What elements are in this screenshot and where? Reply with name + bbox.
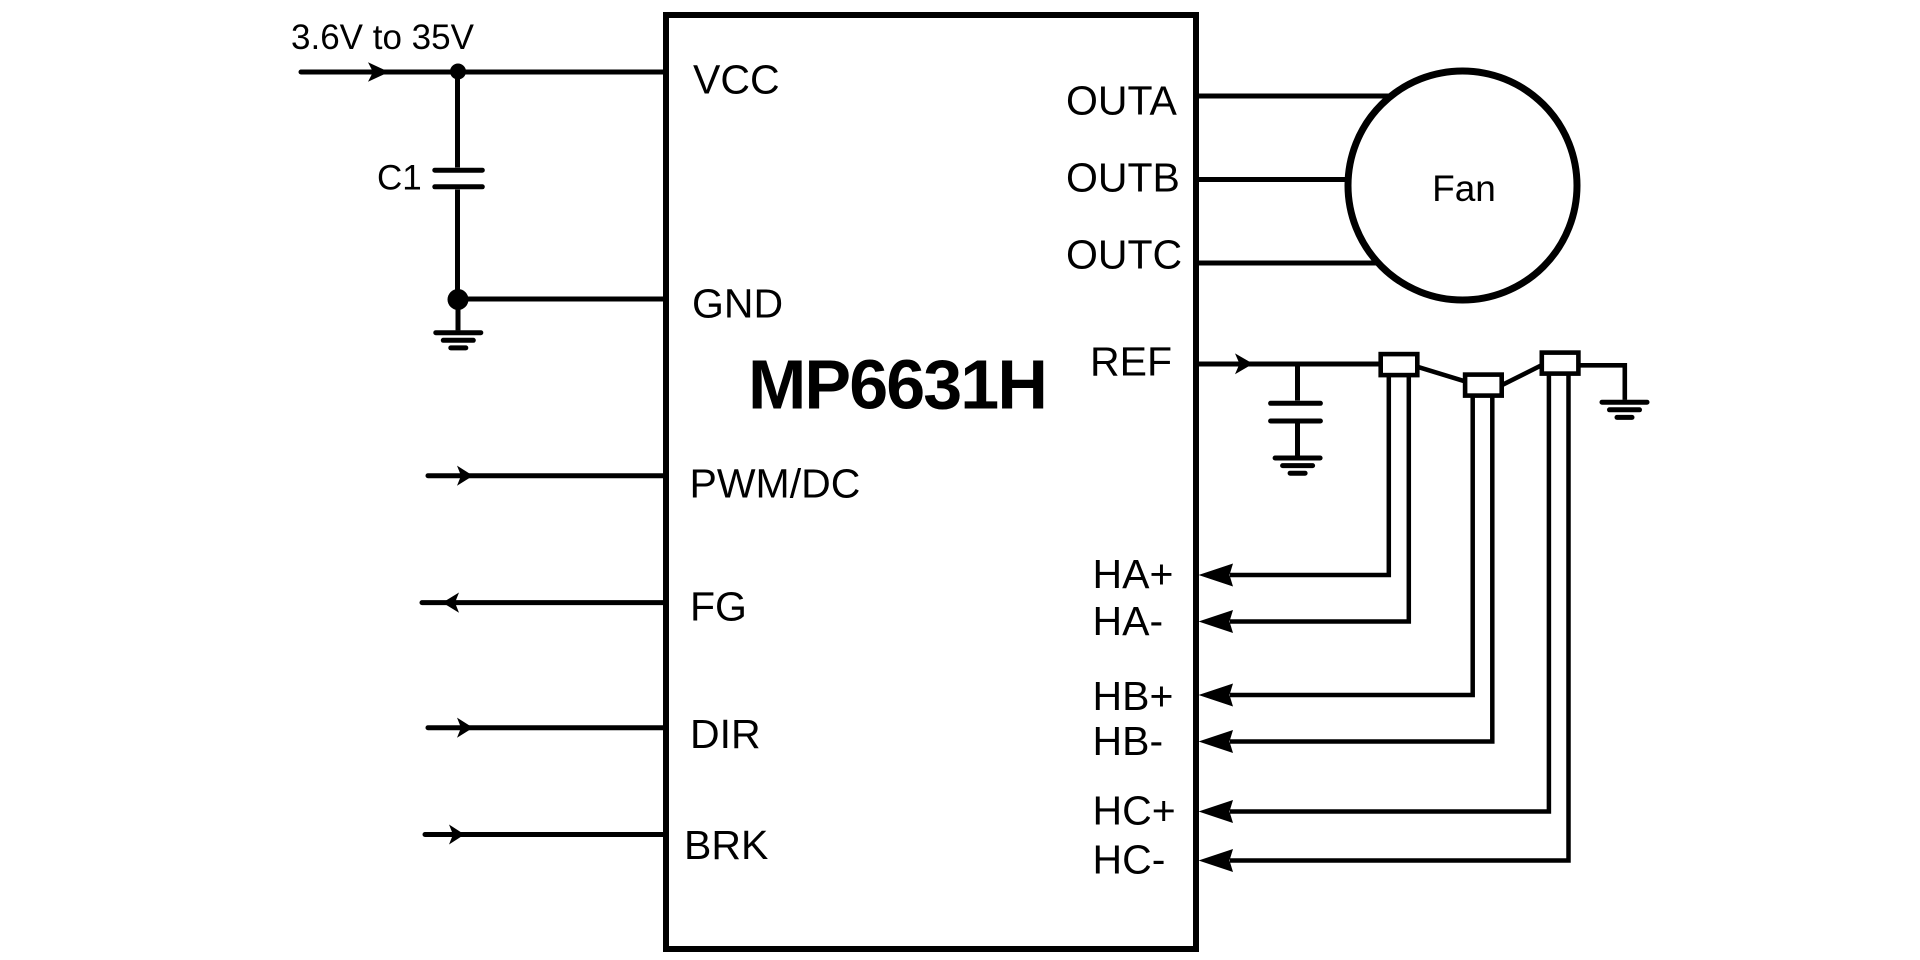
wire ground stub — [456, 299, 461, 330]
arrowhead BRK — [449, 825, 465, 845]
svg-text:MP6631H: MP6631H — [748, 346, 1046, 424]
arrowhead DIR — [457, 718, 473, 738]
wire OUTA to fan — [1196, 94, 1392, 99]
svg-text:HC+: HC+ — [1093, 788, 1176, 834]
svg-text:VCC: VCC — [693, 57, 780, 103]
svg-text:HB-: HB- — [1093, 718, 1164, 764]
svg-text:DIR: DIR — [690, 711, 761, 757]
node junction VCC/C1 — [450, 64, 466, 80]
arrowhead HC- — [1199, 849, 1234, 872]
wire REF cap branch — [1295, 364, 1300, 401]
svg-text:GND: GND — [692, 281, 783, 327]
hall sensor connector 3 — [1542, 353, 1579, 374]
wire OUTC to fan — [1196, 261, 1382, 266]
arrowhead PWM/DC — [457, 466, 473, 486]
arrowhead HA+ — [1199, 564, 1234, 587]
arrowhead FG — [443, 593, 460, 613]
motor M1 fan circle — [1348, 71, 1577, 300]
arrowhead HA- — [1199, 610, 1234, 633]
capacitor REF bottom plate — [1271, 419, 1321, 424]
IC U1 MP6631H body — [666, 15, 1196, 949]
wire hall B+ leg — [1230, 393, 1473, 695]
svg-text:OUTB: OUTB — [1066, 155, 1180, 201]
svg-text:HA+: HA+ — [1093, 551, 1174, 597]
wire hall A+ leg — [1230, 373, 1389, 575]
svg-text:HA-: HA- — [1093, 598, 1164, 644]
arrowhead HB+ — [1199, 684, 1234, 707]
capacitor REF top plate — [1271, 401, 1321, 406]
arrowhead HB- — [1199, 730, 1234, 753]
capacitor C1 top plate — [435, 168, 483, 173]
wire OUTB to fan — [1196, 177, 1355, 182]
ground symbol REF cap — [1275, 458, 1320, 473]
svg-text:Fan: Fan — [1432, 168, 1496, 209]
wire hall A- leg — [1230, 373, 1409, 622]
arrowhead VCC input — [368, 62, 389, 81]
svg-text:FG: FG — [690, 584, 747, 630]
wire BRK input — [425, 832, 666, 837]
wire REF — [1196, 362, 1383, 367]
svg-text:HB+: HB+ — [1093, 673, 1174, 719]
wire C1 top lead — [455, 72, 460, 168]
wire hall sensor 3 to ground — [1577, 365, 1625, 400]
svg-text:OUTA: OUTA — [1066, 78, 1178, 124]
wire hall C- leg — [1230, 371, 1569, 861]
svg-text:C1: C1 — [377, 159, 422, 198]
wire PWM/DC input — [428, 473, 666, 478]
ground symbol left — [436, 333, 481, 348]
wire VCC input — [301, 70, 666, 75]
wire REF cap ground lead — [1295, 421, 1300, 456]
wire C1 bottom lead — [455, 190, 460, 300]
wire hall sensor 1 to 2 diagonal — [1418, 367, 1467, 382]
capacitor C1 bottom plate — [435, 184, 483, 189]
wire FG output — [422, 600, 666, 605]
svg-text:REF: REF — [1090, 339, 1172, 385]
svg-text:HC-: HC- — [1093, 837, 1166, 883]
wire hall C+ leg — [1230, 371, 1549, 812]
wire DIR input — [428, 725, 666, 730]
wire GND — [458, 297, 667, 302]
svg-text:PWM/DC: PWM/DC — [690, 461, 861, 507]
svg-text:3.6V to 35V: 3.6V to 35V — [291, 18, 475, 57]
ground symbol hall — [1602, 402, 1647, 417]
svg-text:OUTC: OUTC — [1066, 232, 1182, 278]
arrowhead REF — [1235, 353, 1253, 374]
wire hall B- leg — [1230, 393, 1492, 742]
hall sensor connector 1 — [1381, 354, 1418, 375]
svg-text:BRK: BRK — [684, 822, 768, 868]
node junction GND/C1 — [448, 289, 469, 310]
hall sensor connector 2 — [1465, 375, 1502, 396]
arrowhead HC+ — [1199, 800, 1234, 823]
wire hall sensor 2 to 3 diagonal — [1501, 365, 1544, 386]
